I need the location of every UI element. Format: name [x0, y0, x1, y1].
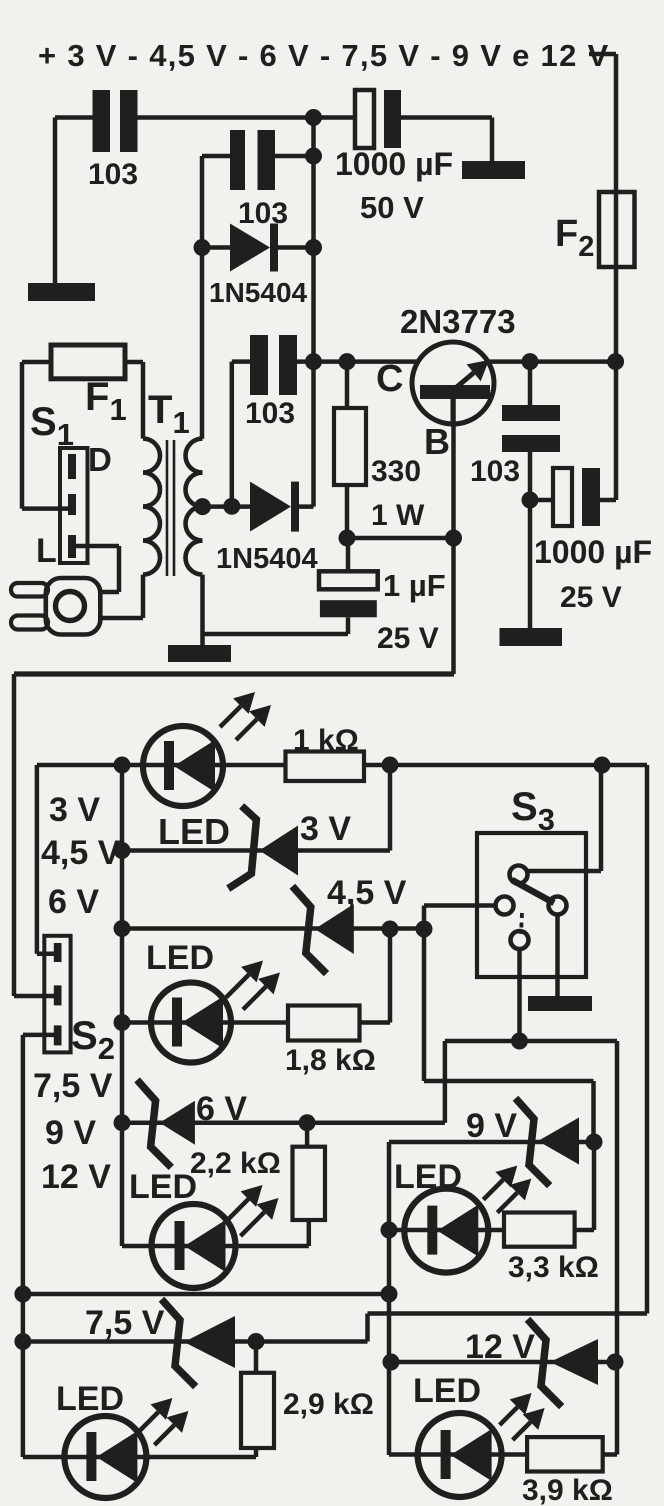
svg-text:LED: LED [158, 811, 230, 852]
svg-text:25 V: 25 V [560, 581, 622, 614]
svg-text:103: 103 [470, 455, 520, 488]
svg-text:2N3773: 2N3773 [400, 303, 516, 340]
svg-text:LED: LED [129, 1168, 197, 1206]
svg-text:6 V: 6 V [196, 1090, 247, 1128]
svg-text:1000 µF: 1000 µF [335, 146, 453, 182]
svg-text:1N5404: 1N5404 [209, 277, 308, 308]
svg-text:1 kΩ: 1 kΩ [293, 724, 359, 757]
svg-text:1N5404: 1N5404 [216, 543, 318, 575]
svg-text:C: C [376, 358, 403, 400]
svg-text:LED: LED [413, 1372, 481, 1410]
svg-text:LED: LED [56, 1380, 124, 1418]
svg-text:103: 103 [238, 197, 288, 230]
svg-text:9 V: 9 V [466, 1107, 517, 1145]
svg-text:7,5 V: 7,5 V [85, 1304, 165, 1342]
svg-text:+ 3 V - 4,5 V - 6 V - 7,5 V -: + 3 V - 4,5 V - 6 V - 7,5 V - 9 V e 12 V [38, 38, 610, 73]
svg-text:LED: LED [146, 939, 214, 977]
svg-text:2,9 kΩ: 2,9 kΩ [283, 1388, 374, 1421]
svg-text:2,2 kΩ: 2,2 kΩ [190, 1147, 281, 1180]
svg-text:L: L [36, 532, 57, 570]
svg-text:25 V: 25 V [377, 622, 439, 655]
svg-text:6 V: 6 V [48, 883, 99, 921]
svg-text:103: 103 [88, 158, 138, 191]
svg-text:1,8 kΩ: 1,8 kΩ [285, 1044, 376, 1077]
svg-text:D: D [88, 441, 112, 478]
svg-text:4,5 V: 4,5 V [327, 874, 407, 912]
svg-text:1 W: 1 W [371, 499, 425, 532]
svg-text:3,3 kΩ: 3,3 kΩ [508, 1251, 599, 1284]
svg-text:9 V: 9 V [45, 1114, 96, 1152]
svg-text:50 V: 50 V [360, 190, 424, 225]
svg-text:1 µF: 1 µF [383, 568, 446, 603]
svg-text:LED: LED [394, 1158, 462, 1196]
svg-text:3 V: 3 V [49, 791, 100, 829]
svg-text:12 V: 12 V [41, 1158, 111, 1196]
svg-text:4,5 V: 4,5 V [41, 834, 121, 872]
svg-text:12 V: 12 V [465, 1328, 535, 1366]
svg-text:3,9 kΩ: 3,9 kΩ [522, 1474, 613, 1506]
svg-text:B: B [424, 421, 450, 462]
svg-text:3 V: 3 V [300, 810, 351, 848]
svg-text:1000 µF: 1000 µF [534, 534, 652, 570]
svg-text:7,5 V: 7,5 V [33, 1067, 113, 1105]
svg-text:103: 103 [245, 397, 295, 430]
svg-text:330: 330 [371, 455, 421, 488]
